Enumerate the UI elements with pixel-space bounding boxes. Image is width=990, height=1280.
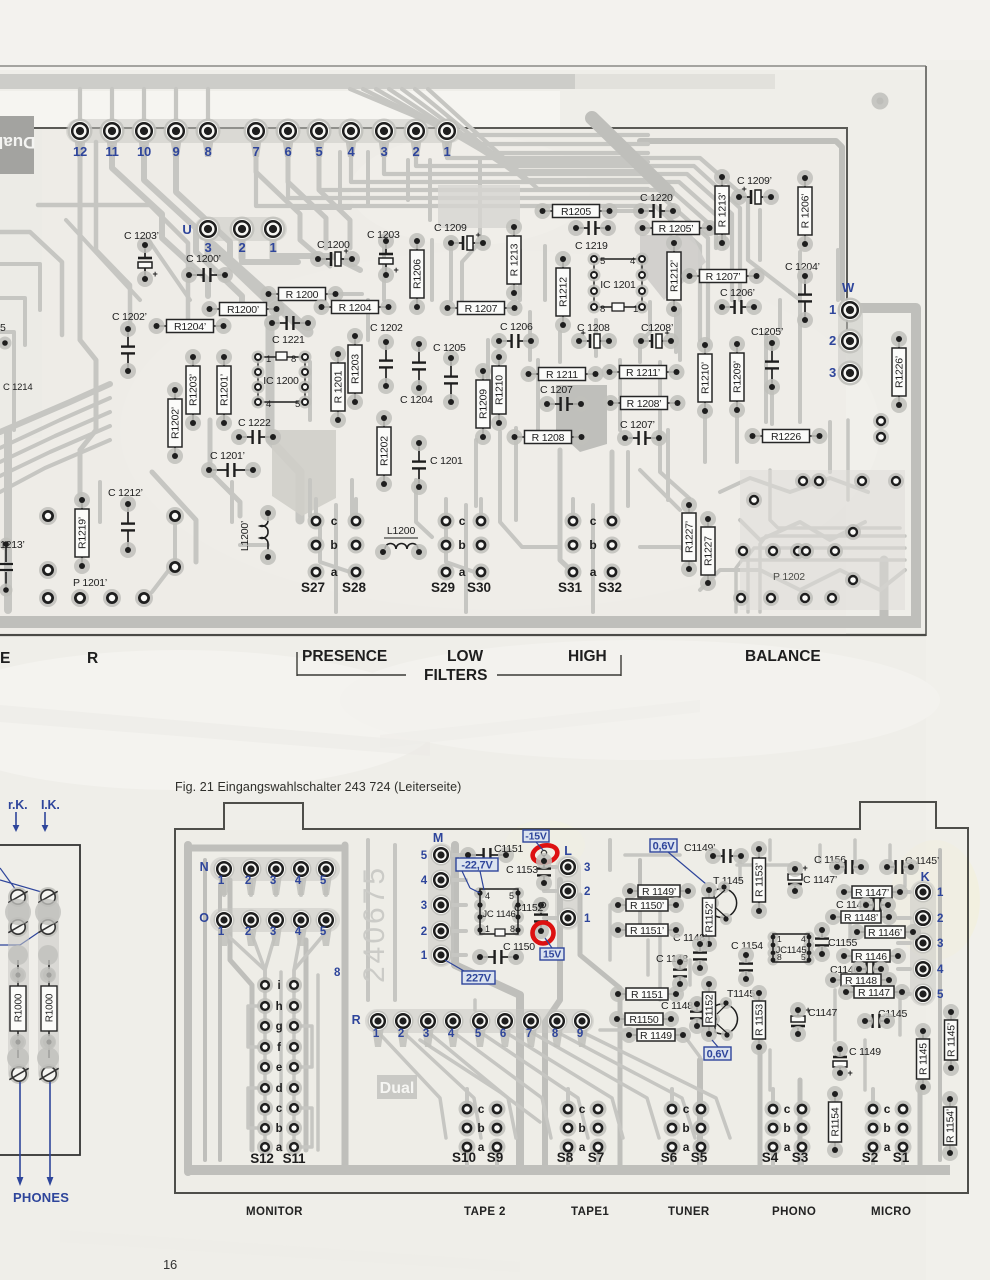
svg-text:R1152’: R1152’ bbox=[704, 901, 716, 932]
svg-text:4: 4 bbox=[485, 891, 490, 901]
svg-text:IC 1200: IC 1200 bbox=[263, 375, 299, 387]
svg-text:a: a bbox=[331, 565, 338, 579]
svg-text:S3: S3 bbox=[792, 1150, 809, 1165]
svg-text:C 1209’: C 1209’ bbox=[737, 175, 772, 187]
test point TP1 bbox=[541, 850, 546, 855]
resistor R1146 bbox=[836, 948, 906, 964]
resistor R1153p bbox=[751, 841, 767, 919]
resistor R1204p bbox=[149, 318, 232, 334]
svg-text:R1150: R1150 bbox=[629, 1014, 659, 1026]
svg-text:5: 5 bbox=[295, 399, 300, 410]
svg-text:C 1204: C 1204 bbox=[400, 394, 433, 406]
capacitor C1147 bbox=[790, 1002, 811, 1042]
resistor R1205 bbox=[535, 203, 618, 219]
paper tint near K bbox=[890, 840, 980, 960]
svg-text:R1203’: R1203’ bbox=[188, 374, 200, 406]
white strip above board bbox=[0, 91, 560, 127]
resistor R1149 bbox=[621, 1027, 691, 1043]
svg-text:C 1200: C 1200 bbox=[317, 239, 350, 251]
pad numbers (blue) bbox=[73, 144, 451, 159]
svg-text:4: 4 bbox=[295, 875, 302, 887]
svg-text:5: 5 bbox=[475, 1028, 482, 1040]
svg-text:S6: S6 bbox=[661, 1150, 678, 1165]
svg-text:C 1200’: C 1200’ bbox=[186, 253, 221, 265]
svg-text:C 1205: C 1205 bbox=[433, 342, 466, 354]
svg-text:5: 5 bbox=[0, 322, 6, 334]
svg-text:7: 7 bbox=[526, 1028, 532, 1040]
svg-text:240675: 240675 bbox=[358, 865, 391, 983]
svg-text:C 1219: C 1219 bbox=[575, 240, 608, 252]
svg-text:r.K.: r.K. bbox=[8, 798, 27, 812]
resistor R1148 bbox=[825, 972, 897, 988]
svg-text:5: 5 bbox=[600, 256, 605, 267]
capacitor C1148b bbox=[689, 996, 705, 1034]
resistor R1211p bbox=[602, 364, 685, 380]
svg-text:b: b bbox=[682, 1121, 689, 1135]
svg-text:L1200: L1200 bbox=[387, 525, 416, 537]
svg-text:4: 4 bbox=[630, 256, 635, 267]
capacitor C1209p bbox=[731, 184, 779, 205]
svg-text:S28: S28 bbox=[342, 580, 367, 595]
svg-text:C1147: C1147 bbox=[808, 1007, 838, 1019]
svg-text:7: 7 bbox=[252, 144, 259, 159]
0,6V label top bbox=[650, 839, 677, 852]
svg-text:1: 1 bbox=[218, 875, 225, 887]
svg-text:R 1145: R 1145 bbox=[918, 1043, 930, 1075]
switch S4 S3 pads bbox=[762, 1089, 811, 1165]
svg-text:R1201’: R1201’ bbox=[219, 374, 231, 406]
resistor R1000 left bbox=[10, 960, 26, 1058]
svg-text:R 1211: R 1211 bbox=[546, 369, 578, 381]
resistor R1201 bbox=[330, 346, 346, 428]
svg-text:i: i bbox=[278, 980, 281, 992]
svg-text:5: 5 bbox=[509, 891, 514, 901]
capacitor C1219 bbox=[568, 220, 616, 236]
svg-text:8: 8 bbox=[204, 144, 211, 159]
svg-text:R1000: R1000 bbox=[45, 993, 56, 1022]
resistor R1208 bbox=[507, 429, 590, 445]
red circle 1 bbox=[531, 843, 559, 865]
bracket lines bbox=[296, 652, 298, 676]
svg-text:R 1208’: R 1208’ bbox=[627, 398, 662, 410]
svg-text:R1212: R1212 bbox=[558, 277, 570, 307]
svg-text:a: a bbox=[884, 1140, 891, 1154]
capacitor C1154 bbox=[738, 947, 754, 987]
svg-text:C 1214: C 1214 bbox=[3, 382, 32, 393]
svg-text:C 1201’: C 1201’ bbox=[210, 450, 245, 462]
resistor R1207p bbox=[682, 268, 765, 284]
svg-text:C 1212’: C 1212’ bbox=[108, 487, 143, 499]
capacitor C1145p bbox=[879, 859, 919, 875]
svg-text:5: 5 bbox=[315, 144, 322, 159]
capacitor C1151 bbox=[460, 847, 514, 863]
arrows into box bbox=[15, 812, 17, 826]
resistor R1227p bbox=[681, 497, 697, 577]
svg-text:R 1148: R 1148 bbox=[845, 975, 877, 987]
switch S2 S1 pads bbox=[862, 1089, 912, 1165]
svg-text:8: 8 bbox=[334, 967, 341, 979]
svg-text:-15V: -15V bbox=[525, 830, 547, 842]
resistor R1213 bbox=[506, 219, 522, 301]
svg-text:R 1204: R 1204 bbox=[339, 302, 372, 314]
inductor L1200 bbox=[375, 525, 427, 560]
svg-text:b: b bbox=[883, 1121, 890, 1135]
svg-text:S2: S2 bbox=[862, 1150, 879, 1165]
capacitor C1207 bbox=[539, 396, 589, 412]
op-amp IC1200 bbox=[252, 351, 312, 411]
svg-text:W: W bbox=[842, 280, 855, 295]
svg-text:S10: S10 bbox=[452, 1150, 476, 1165]
capacitor C1149 bbox=[832, 1041, 853, 1081]
connector pads 1-12 (top row) bbox=[66, 119, 462, 143]
svg-text:R1203: R1203 bbox=[350, 354, 362, 384]
resistor R1150 bbox=[609, 1011, 679, 1027]
svg-text:1: 1 bbox=[443, 144, 450, 159]
switch S29 S30 pads bbox=[431, 499, 491, 595]
resistor R1151 bbox=[610, 986, 684, 1002]
capacitor C1205 bbox=[443, 350, 459, 410]
capacitor C1206p bbox=[714, 299, 762, 315]
resistor R1149p bbox=[622, 883, 696, 899]
svg-text:BALANCE: BALANCE bbox=[745, 648, 821, 665]
svg-text:L1200’: L1200’ bbox=[239, 521, 251, 551]
svg-text:3: 3 bbox=[584, 862, 590, 874]
svg-text:R1210: R1210 bbox=[494, 375, 506, 405]
svg-text:R 1200: R 1200 bbox=[286, 289, 319, 301]
resistor R1148p bbox=[825, 909, 897, 925]
svg-text:c: c bbox=[459, 514, 466, 528]
svg-text:R: R bbox=[87, 650, 98, 667]
svg-text:4: 4 bbox=[937, 964, 944, 976]
svg-text:S27: S27 bbox=[301, 580, 325, 595]
svg-text:4: 4 bbox=[347, 144, 355, 159]
phones box bbox=[0, 845, 80, 1155]
svg-text:R 1151’: R 1151’ bbox=[630, 925, 664, 937]
svg-text:S32: S32 bbox=[598, 580, 622, 595]
svg-text:C1205’: C1205’ bbox=[751, 326, 783, 338]
svg-text:C 1147’: C 1147’ bbox=[803, 874, 837, 886]
node K pads bbox=[910, 880, 936, 1006]
svg-text:4: 4 bbox=[421, 875, 428, 887]
svg-text:1: 1 bbox=[485, 924, 490, 934]
resistor R1203p bbox=[185, 349, 201, 431]
switch S31 S32 pads bbox=[558, 499, 622, 595]
svg-text:+: + bbox=[393, 265, 398, 275]
capacitor C1203 bbox=[378, 233, 399, 283]
test point TP2 bbox=[540, 902, 545, 907]
svg-text:a: a bbox=[683, 1140, 690, 1154]
node W pads bbox=[838, 298, 863, 385]
resistor R1219p bbox=[74, 492, 90, 574]
inductor L1200 prime bbox=[239, 505, 276, 565]
PCB board outline (bottom board) bbox=[175, 802, 968, 1193]
svg-text:R1202’: R1202’ bbox=[170, 407, 182, 439]
node M pads bbox=[428, 843, 454, 967]
svg-text:+: + bbox=[152, 269, 157, 279]
svg-text:b: b bbox=[330, 538, 337, 552]
phones wiring (blue) bbox=[0, 868, 16, 890]
transistor T1145 (lower) bbox=[708, 997, 737, 1041]
svg-text:6: 6 bbox=[500, 1028, 506, 1040]
svg-text:3: 3 bbox=[270, 926, 276, 938]
svg-text:R 1147: R 1147 bbox=[858, 987, 890, 999]
svg-text:10: 10 bbox=[137, 144, 151, 159]
svg-text:C 1153: C 1153 bbox=[506, 864, 538, 876]
svg-text:3: 3 bbox=[270, 875, 276, 887]
node N pads bbox=[210, 857, 340, 881]
resistor R1154 bbox=[827, 1086, 843, 1158]
resistor R1226 bbox=[745, 428, 828, 444]
svg-text:1: 1 bbox=[633, 304, 638, 315]
svg-text:+: + bbox=[847, 1068, 852, 1078]
wire: bottom board thick traces bbox=[177, 830, 966, 1191]
resistor R1210 bbox=[491, 349, 507, 431]
svg-text:1: 1 bbox=[937, 887, 944, 899]
op-amp IC1201 bbox=[588, 253, 649, 316]
Dual logo (bottom board) bbox=[377, 1075, 417, 1099]
svg-text:5: 5 bbox=[320, 875, 327, 887]
svg-text:C 1203’: C 1203’ bbox=[124, 230, 159, 242]
gray blobs in phones box bbox=[5, 899, 31, 925]
capacitor C1155 bbox=[814, 922, 830, 962]
svg-text:S7: S7 bbox=[588, 1150, 605, 1165]
switch S6 S5 pads bbox=[661, 1089, 710, 1165]
switch S8 S7 pads bbox=[557, 1089, 607, 1165]
svg-text:C1152: C1152 bbox=[514, 902, 544, 914]
resistor R1207 bbox=[440, 300, 523, 316]
svg-text:N: N bbox=[200, 860, 209, 874]
svg-text:2: 2 bbox=[245, 926, 251, 938]
svg-text:TAPE 2: TAPE 2 bbox=[464, 1206, 506, 1218]
svg-text:1: 1 bbox=[269, 240, 276, 255]
svg-text:M: M bbox=[433, 831, 443, 845]
resistor R1000 right bbox=[41, 960, 57, 1058]
227V label bbox=[462, 971, 495, 984]
svg-text:R1227’: R1227’ bbox=[684, 521, 696, 553]
resistor R1146p bbox=[849, 924, 921, 940]
resistor R1210p bbox=[697, 337, 713, 419]
svg-text:0,6V: 0,6V bbox=[707, 1048, 730, 1060]
svg-text:R: R bbox=[352, 1013, 361, 1027]
svg-text:8: 8 bbox=[291, 354, 296, 365]
svg-text:S8: S8 bbox=[557, 1150, 574, 1165]
svg-text:12: 12 bbox=[73, 144, 87, 159]
top scan line bbox=[0, 65, 926, 67]
resistor R1153 bbox=[751, 985, 767, 1055]
capacitor C1206 bbox=[491, 333, 539, 349]
svg-text:C1155: C1155 bbox=[828, 937, 858, 949]
wire: top board thick ground traces bbox=[0, 616, 921, 628]
svg-text:Dual: Dual bbox=[0, 133, 35, 152]
capacitor C1213 prime bbox=[0, 538, 13, 551]
svg-text:C 1202: C 1202 bbox=[370, 322, 403, 334]
svg-text:R 1153: R 1153 bbox=[754, 1004, 766, 1036]
gray chains in phones box bbox=[8, 888, 29, 1083]
node O pads bbox=[210, 908, 340, 932]
svg-text:LOW: LOW bbox=[447, 648, 484, 665]
transistor T1145 (upper) bbox=[707, 881, 737, 925]
top gray band bbox=[0, 74, 575, 89]
node R pads bbox=[365, 1009, 594, 1033]
Dual logo (top left, mirrored) bbox=[0, 116, 35, 174]
svg-text:FILTERS: FILTERS bbox=[424, 667, 487, 684]
svg-text:b: b bbox=[276, 1123, 283, 1135]
svg-text:E: E bbox=[0, 650, 10, 667]
svg-text:3: 3 bbox=[421, 900, 427, 912]
svg-text:C 1220: C 1220 bbox=[640, 192, 673, 204]
svg-text:8: 8 bbox=[600, 304, 605, 315]
figure frame right edge bbox=[925, 66, 927, 636]
svg-text:8: 8 bbox=[510, 924, 515, 934]
svg-text:C 1209: C 1209 bbox=[434, 222, 467, 234]
svg-text:R1204’: R1204’ bbox=[174, 321, 206, 333]
capacitor C1208p bbox=[633, 328, 679, 349]
svg-text:S4: S4 bbox=[762, 1150, 779, 1165]
svg-text:MONITOR: MONITOR bbox=[246, 1206, 303, 1218]
svg-text:2: 2 bbox=[238, 240, 245, 255]
svg-text:C 1150: C 1150 bbox=[503, 941, 535, 953]
svg-text:JC1145: JC1145 bbox=[776, 945, 807, 956]
capacitor C1204p bbox=[797, 268, 813, 328]
svg-text:R 1146’: R 1146’ bbox=[868, 927, 902, 939]
svg-text:S12: S12 bbox=[250, 1151, 273, 1166]
wire: S12/S11 column traces bbox=[279, 972, 283, 1150]
capacitor C1202 bbox=[378, 334, 394, 394]
svg-text:R1154: R1154 bbox=[830, 1107, 842, 1137]
svg-text:Dual: Dual bbox=[380, 1080, 415, 1097]
svg-text:5: 5 bbox=[421, 850, 428, 862]
0,6V label bottom bbox=[704, 1047, 731, 1060]
svg-text:1: 1 bbox=[584, 913, 591, 925]
svg-text:b: b bbox=[458, 538, 465, 552]
pad grid P1201 bbox=[39, 507, 184, 607]
op-amp IC1145 bbox=[768, 932, 815, 966]
svg-text:2: 2 bbox=[937, 913, 943, 925]
svg-text:JC 1146: JC 1146 bbox=[482, 909, 515, 920]
15V label bbox=[540, 948, 564, 960]
svg-text:R1205: R1205 bbox=[561, 206, 591, 218]
svg-text:4: 4 bbox=[266, 399, 271, 410]
svg-text:R 1151: R 1151 bbox=[631, 989, 663, 1001]
svg-text:S31: S31 bbox=[558, 580, 583, 595]
capacitor C1200p bbox=[181, 267, 233, 283]
svg-text:R1152: R1152 bbox=[704, 994, 716, 1024]
svg-text:P 1201’: P 1201’ bbox=[73, 577, 107, 589]
svg-text:+: + bbox=[802, 863, 807, 873]
resistor R1200p bbox=[202, 301, 285, 317]
svg-text:R1226’: R1226’ bbox=[894, 356, 906, 388]
svg-text:R 1207: R 1207 bbox=[465, 303, 498, 315]
resistor R1204 bbox=[314, 299, 397, 315]
svg-text:S1: S1 bbox=[893, 1150, 910, 1165]
svg-text:O: O bbox=[199, 911, 209, 925]
svg-text:1: 1 bbox=[218, 926, 225, 938]
capacitor C1221 bbox=[264, 315, 316, 331]
resistor R1150p bbox=[610, 897, 684, 913]
capacitor C1204 bbox=[411, 336, 427, 396]
svg-text:C 1148: C 1148 bbox=[661, 1000, 693, 1012]
capacitor C1201p bbox=[201, 462, 261, 478]
svg-text:c: c bbox=[884, 1102, 891, 1116]
svg-text:Fig. 21 Eingangswahlschalter: Fig. 21 Eingangswahlschalter 243 724 (Le… bbox=[175, 780, 461, 794]
capacitor C1146p bbox=[858, 897, 896, 913]
capacitor C1147p bbox=[787, 861, 808, 899]
resistor R1208p bbox=[603, 395, 686, 411]
svg-text:1: 1 bbox=[777, 934, 782, 944]
svg-text:b: b bbox=[589, 538, 596, 552]
resistor R1145p bbox=[943, 1004, 959, 1076]
svg-text:R1000: R1000 bbox=[14, 993, 25, 1022]
svg-text:3: 3 bbox=[937, 938, 943, 950]
svg-text:C1151: C1151 bbox=[494, 843, 524, 855]
svg-text:C 1203: C 1203 bbox=[367, 229, 400, 241]
capacitor C1203p bbox=[137, 237, 158, 287]
svg-text:1: 1 bbox=[829, 302, 836, 317]
svg-text:R 1211’: R 1211’ bbox=[626, 367, 660, 379]
capacitor C1148 bbox=[672, 954, 688, 992]
svg-text:1213’: 1213’ bbox=[0, 539, 25, 551]
svg-text:R1226: R1226 bbox=[771, 431, 801, 443]
svg-text:PRESENCE: PRESENCE bbox=[302, 648, 387, 665]
capacitor C1150 bbox=[472, 949, 524, 965]
wire: balance routing bbox=[700, 570, 905, 590]
resistor R1200 bbox=[261, 286, 344, 302]
resistor R1202p bbox=[167, 382, 183, 464]
svg-text:a: a bbox=[590, 565, 597, 579]
svg-text:R 1206’: R 1206’ bbox=[800, 194, 812, 229]
svg-text:HIGH: HIGH bbox=[568, 648, 607, 665]
capacitor C1146 bbox=[851, 961, 889, 977]
node U pads bbox=[194, 217, 287, 241]
svg-text:e: e bbox=[276, 1062, 282, 1074]
svg-text:1: 1 bbox=[421, 950, 428, 962]
resistor R1226p bbox=[891, 331, 907, 413]
capacitor C1208 bbox=[571, 328, 617, 349]
svg-text:TUNER: TUNER bbox=[668, 1206, 710, 1218]
svg-text:C 1207’: C 1207’ bbox=[620, 419, 655, 431]
svg-text:3: 3 bbox=[380, 144, 387, 159]
svg-text:2: 2 bbox=[829, 333, 836, 348]
wire: left bundle bbox=[112, 148, 208, 296]
svg-text:a: a bbox=[478, 1140, 485, 1154]
wire: monitor fan bbox=[222, 880, 226, 895]
svg-text:a: a bbox=[459, 565, 466, 579]
stray pad top right bbox=[872, 93, 889, 110]
pad grid P1202 bbox=[733, 413, 904, 606]
resistor R1211 bbox=[521, 366, 604, 382]
svg-text:4: 4 bbox=[448, 1028, 455, 1040]
capacitor C1148p bbox=[692, 936, 708, 976]
svg-text:MICRO: MICRO bbox=[871, 1206, 911, 1218]
svg-text:4: 4 bbox=[295, 926, 302, 938]
wire: fan of traces top-right bbox=[447, 142, 800, 300]
svg-text:c: c bbox=[784, 1102, 791, 1116]
svg-text:16: 16 bbox=[163, 1257, 177, 1272]
resistor R1213p bbox=[714, 169, 730, 251]
svg-text:1: 1 bbox=[373, 1028, 380, 1040]
capacitor C1205p bbox=[764, 335, 780, 395]
svg-text:2: 2 bbox=[584, 886, 590, 898]
svg-text:227V: 227V bbox=[466, 972, 492, 984]
svg-text:R 1149: R 1149 bbox=[640, 1030, 672, 1042]
resistor R1212p bbox=[666, 235, 682, 317]
resistor R1227 bbox=[700, 511, 716, 591]
svg-text:c: c bbox=[590, 514, 597, 528]
switch S12 S11 pads bbox=[250, 977, 306, 1166]
svg-text:-22,7V: -22,7V bbox=[461, 859, 493, 871]
resistor R1206p bbox=[797, 170, 813, 252]
svg-text:PHONES: PHONES bbox=[13, 1190, 69, 1205]
